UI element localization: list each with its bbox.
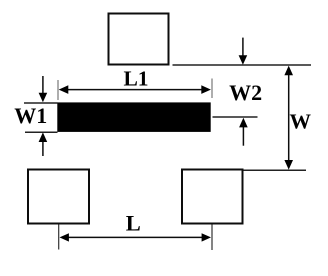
dimension W: double-headed vertical arrow <box>284 66 293 170</box>
resistor body (black bar) <box>57 102 210 131</box>
svg-text:W2: W2 <box>229 80 262 105</box>
svg-text:L1: L1 <box>123 67 148 91</box>
extension line: top pad bottom edge <box>173 64 312 66</box>
label L <box>126 211 141 236</box>
dimension L: witness tick right <box>211 225 213 251</box>
pad P2 (bottom-left) <box>28 170 89 224</box>
svg-text:W: W <box>290 110 312 134</box>
extension line: bottom pad top edge (right) <box>244 169 307 171</box>
extension line: resistor top edge (left) <box>24 102 58 104</box>
label W1 <box>14 103 47 128</box>
pad P1 (top) <box>109 14 169 65</box>
dimension W1: lower arrow (up) <box>39 132 48 156</box>
label W2 <box>229 80 262 105</box>
dimension W1: upper arrow (down) <box>39 76 48 102</box>
dimension L1: double-headed arrow <box>59 85 211 94</box>
label L1 <box>123 67 148 91</box>
dimension L: witness tick left <box>58 225 60 250</box>
pad P3 (bottom-right) <box>182 170 243 224</box>
dimension L1: witness tick right <box>211 79 213 99</box>
svg-text:L: L <box>126 211 141 236</box>
dimension L1: witness tick left <box>57 80 59 100</box>
dimension W2: upper arrow (down) <box>239 38 248 65</box>
svg-text:W1: W1 <box>14 103 47 128</box>
extension line: resistor centerline (right) <box>213 116 258 118</box>
extension line: resistor bottom edge (left) <box>25 131 58 133</box>
dimension L: double-headed arrow <box>60 233 212 241</box>
dimension W2: lower arrow (up) <box>239 118 248 146</box>
label W <box>290 110 312 134</box>
